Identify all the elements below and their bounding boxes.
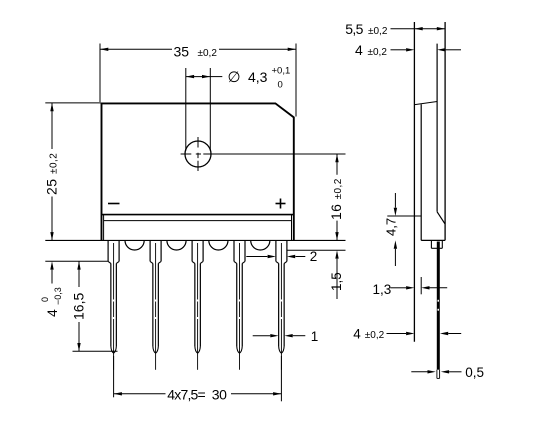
svg-text:1,3: 1,3 xyxy=(373,282,392,297)
svg-text:±0,2: ±0,2 xyxy=(368,47,388,58)
svg-text:1,5: 1,5 xyxy=(329,272,344,291)
svg-text:±0,2: ±0,2 xyxy=(198,48,218,59)
svg-text:4: 4 xyxy=(353,326,361,341)
svg-text:0: 0 xyxy=(278,80,283,91)
svg-text:4,3: 4,3 xyxy=(248,69,268,85)
svg-text:4,7: 4,7 xyxy=(384,218,399,236)
svg-text:35: 35 xyxy=(174,43,190,59)
svg-text:+0,1: +0,1 xyxy=(272,66,291,77)
svg-text:1: 1 xyxy=(311,329,319,344)
svg-text:4: 4 xyxy=(355,42,363,58)
svg-text:30: 30 xyxy=(212,386,227,402)
svg-text:∅: ∅ xyxy=(228,69,241,86)
svg-text:5,5: 5,5 xyxy=(345,21,363,37)
svg-text:±0,2: ±0,2 xyxy=(365,330,385,341)
svg-text:±0,2: ±0,2 xyxy=(368,26,388,37)
svg-text:2: 2 xyxy=(310,249,318,264)
svg-text:0,5: 0,5 xyxy=(465,365,484,380)
svg-text:16,5: 16,5 xyxy=(71,293,87,320)
svg-text:4x7,5=: 4x7,5= xyxy=(167,386,205,402)
